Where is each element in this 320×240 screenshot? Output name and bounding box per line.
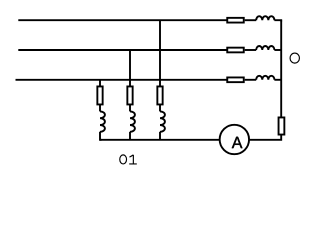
wire phase line 3 (bottom)	[16, 79, 228, 81]
wire L1 to bus corner	[274, 20, 281, 21]
inductor L1 (top right)	[256, 16, 274, 20]
wire R4 to L4	[99, 104, 101, 111]
wire right bus (neutral O)	[280, 20, 282, 117]
wire branch 3 drop from line 1	[159, 20, 161, 86]
wire L5 to bottom line	[129, 132, 131, 140]
wire R1 to L1	[245, 19, 257, 21]
wire R3 to L3	[245, 79, 257, 81]
wire branch 2 drop from line 2	[129, 50, 131, 86]
ammeter A1 letter	[232, 137, 243, 148]
resistor R2 (middle right horizontal)	[227, 48, 244, 53]
inductor L4 (branch 1 vertical)	[100, 111, 105, 131]
inductor L5 (branch 2 vertical)	[130, 111, 135, 131]
resistor R5 (branch 2 vertical)	[127, 86, 132, 104]
wire R6 to L6	[159, 104, 161, 111]
wire R0 bottom to ammeter	[249, 135, 281, 140]
wire R5 to L5	[129, 104, 131, 111]
resistor R4 (branch 1 vertical)	[97, 86, 102, 104]
ammeter A1 circle	[220, 125, 249, 154]
inductor L2 (middle right)	[256, 46, 274, 50]
resistor R1 (top right horizontal)	[227, 18, 244, 23]
resistor R0 (right vertical)	[279, 117, 285, 134]
wire phase line 2 (middle)	[18, 49, 227, 51]
inductor L6 (branch 3 vertical)	[160, 111, 165, 131]
wire phase line 1 (top)	[18, 19, 227, 21]
inductor L3 (bottom right)	[256, 76, 274, 80]
wire R2 to L2	[245, 49, 257, 51]
wire L2 to bus	[274, 49, 281, 51]
wire L6 to bottom line	[159, 132, 161, 140]
wire bottom neutral line O1	[100, 139, 220, 141]
node O label	[290, 53, 299, 63]
wire branch 1 stub from line 3	[99, 80, 101, 87]
node O1 label	[120, 155, 137, 164]
resistor R6 (branch 3 vertical)	[157, 86, 162, 104]
resistor R3 (bottom right horizontal)	[227, 77, 244, 82]
wire L4 to bottom line	[100, 132, 102, 140]
wire L3 to bus	[274, 79, 281, 81]
